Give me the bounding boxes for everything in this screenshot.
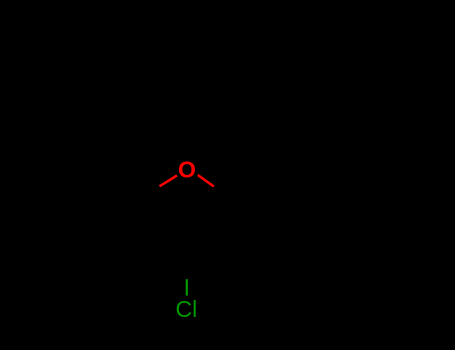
svg-text:Cl: Cl [176,296,198,322]
svg-text:O: O [178,157,196,183]
